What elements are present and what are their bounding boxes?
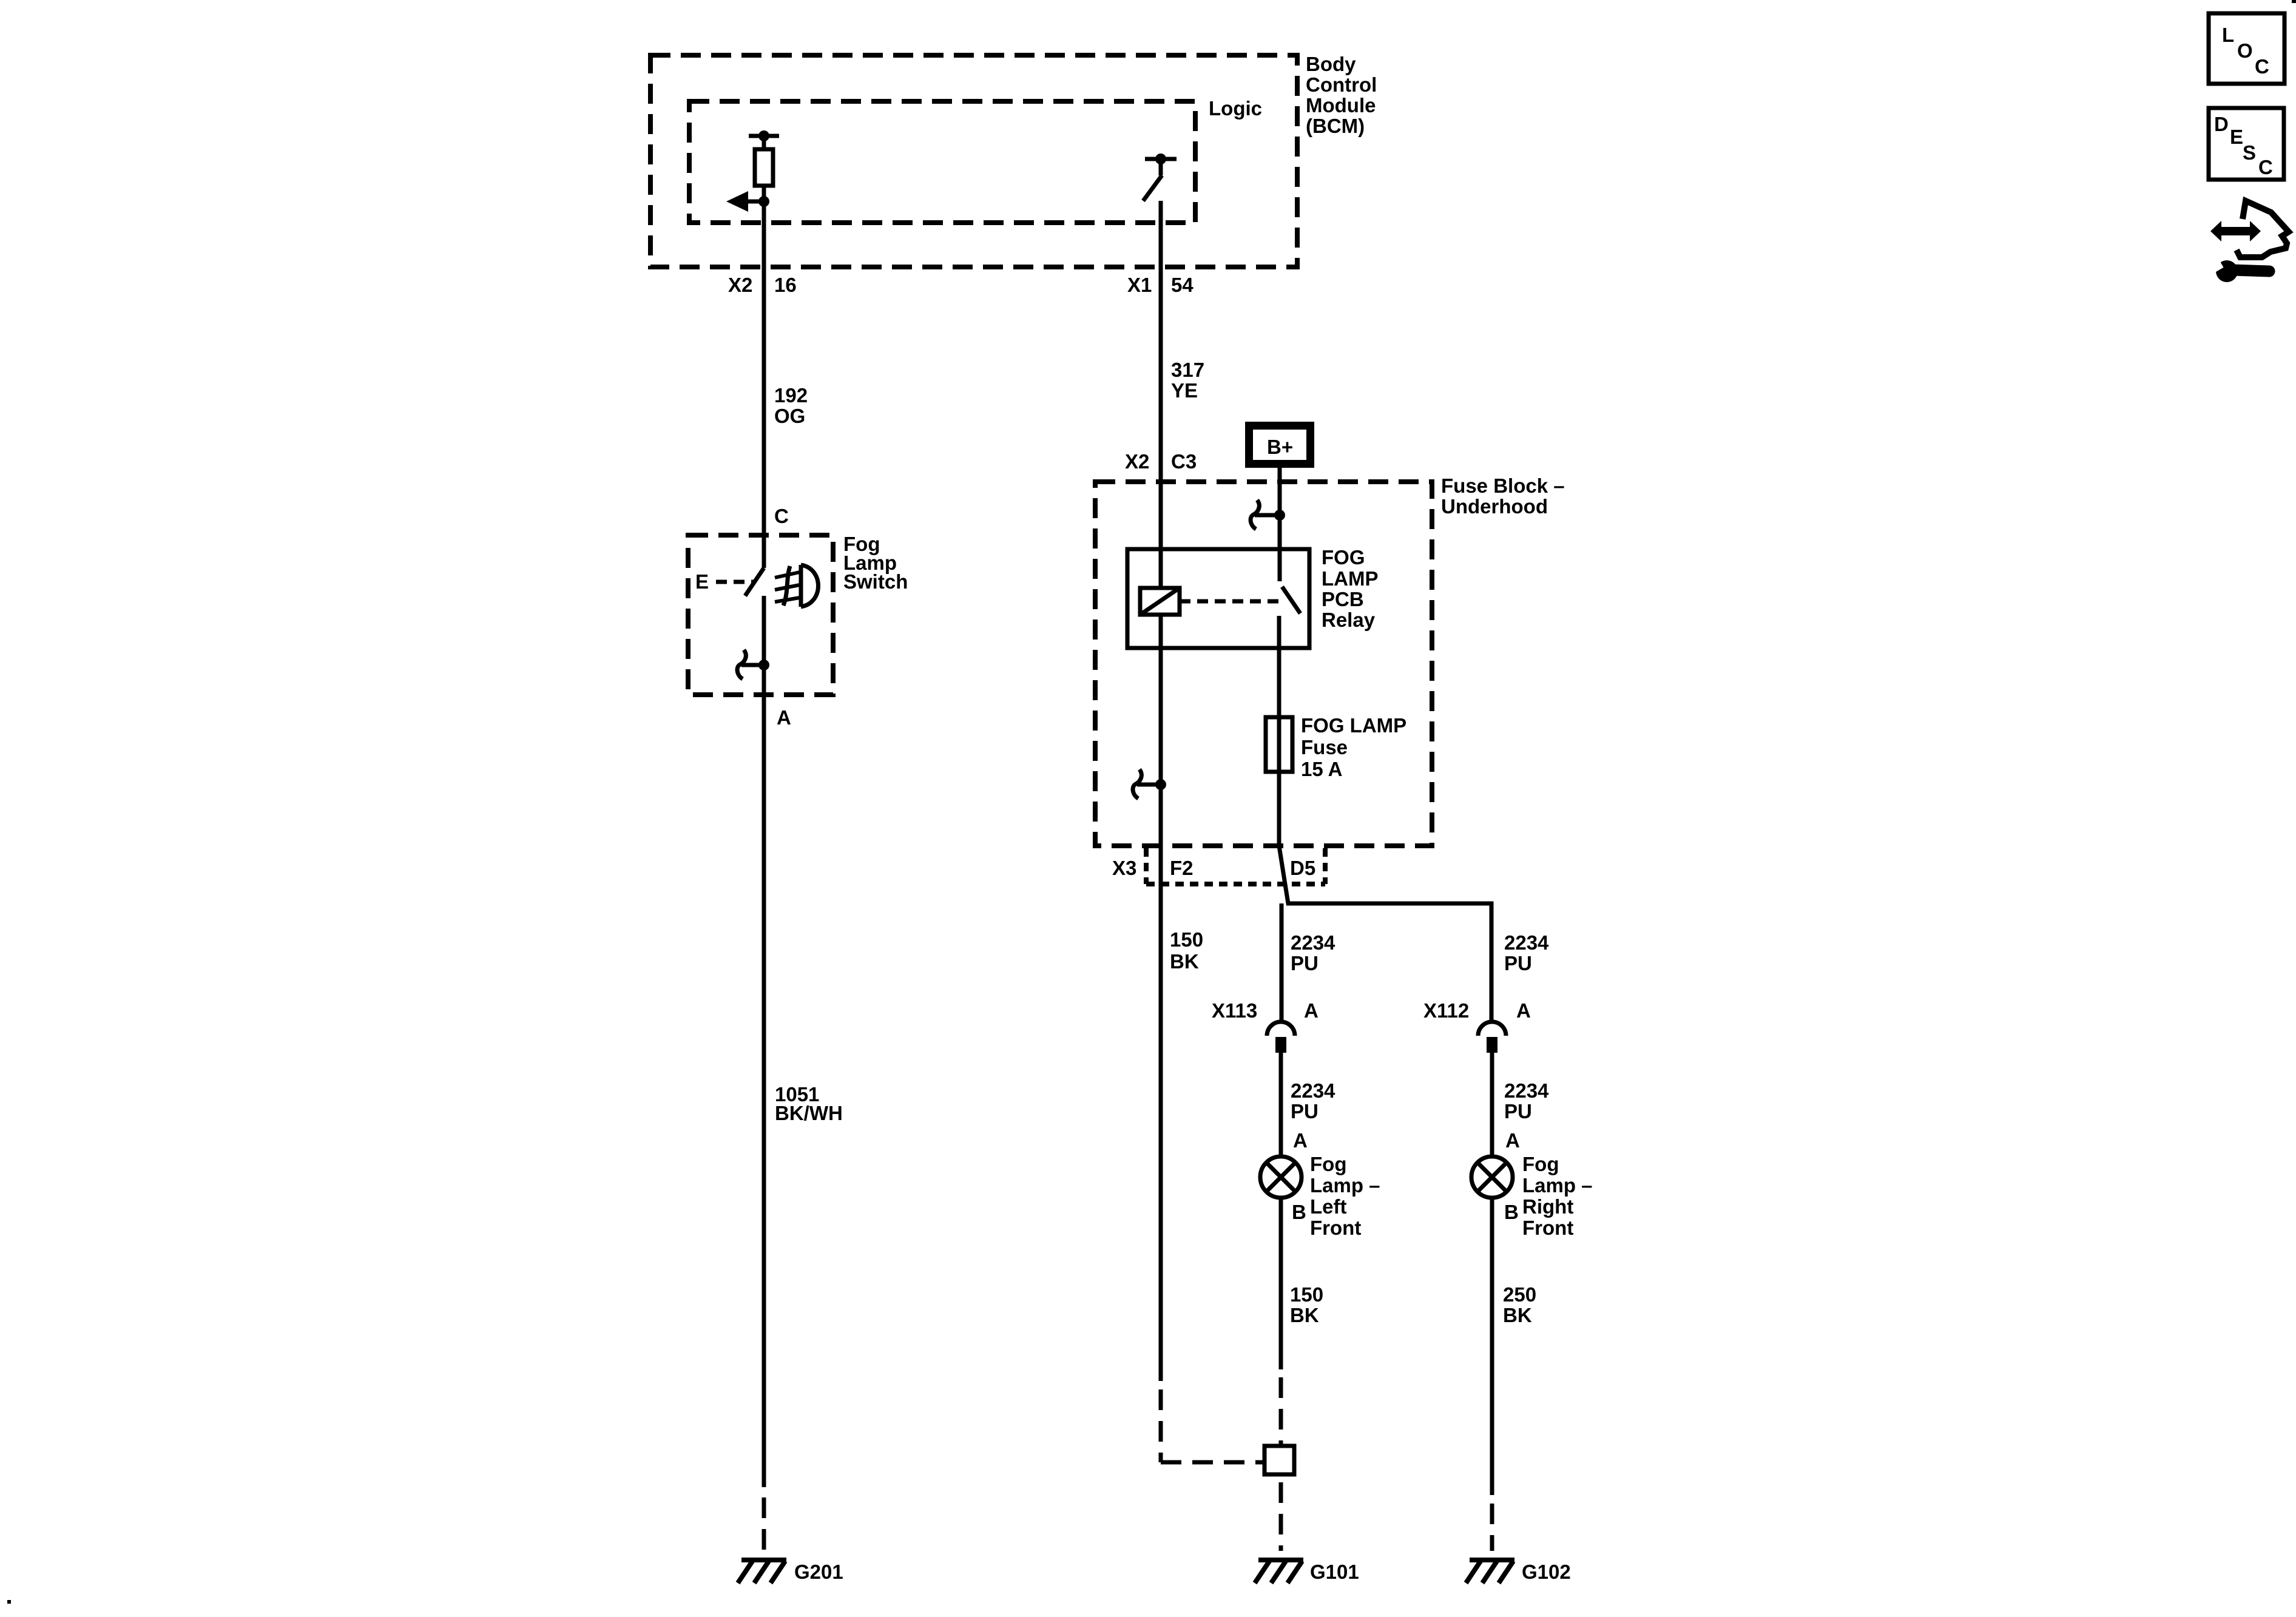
svg-text:A: A xyxy=(1505,1129,1520,1152)
svg-text:PCB: PCB xyxy=(1322,588,1364,610)
svg-text:54: 54 xyxy=(1171,274,1194,296)
svg-text:2234: 2234 xyxy=(1291,931,1335,954)
svg-text:Relay: Relay xyxy=(1322,609,1376,631)
svg-text:Lamp –: Lamp – xyxy=(1522,1174,1593,1197)
svg-text:D: D xyxy=(2214,113,2229,135)
svg-text:PU: PU xyxy=(1291,952,1319,974)
svg-text:Body: Body xyxy=(1306,53,1356,75)
svg-text:BK/WH: BK/WH xyxy=(775,1102,843,1124)
svg-text:OG: OG xyxy=(774,405,805,427)
svg-text:X1: X1 xyxy=(1127,274,1152,296)
svg-text:C: C xyxy=(2258,156,2273,178)
svg-text:G201: G201 xyxy=(794,1561,843,1583)
svg-text:BK: BK xyxy=(1170,950,1199,973)
svg-text:Module: Module xyxy=(1306,94,1376,116)
svg-text:2234: 2234 xyxy=(1504,931,1549,954)
svg-text:(BCM): (BCM) xyxy=(1306,115,1365,137)
svg-text:G102: G102 xyxy=(1522,1561,1571,1583)
svg-text:BK: BK xyxy=(1290,1304,1319,1326)
svg-text:LAMP: LAMP xyxy=(1322,567,1379,590)
svg-text:Front: Front xyxy=(1522,1217,1573,1239)
svg-text:C: C xyxy=(774,505,789,527)
svg-text:X3: X3 xyxy=(1112,857,1136,879)
svg-text:A: A xyxy=(1293,1129,1308,1152)
svg-text:Fuse: Fuse xyxy=(1301,736,1348,758)
svg-text:A: A xyxy=(777,706,791,729)
svg-text:X112: X112 xyxy=(1423,999,1469,1022)
svg-text:15 A: 15 A xyxy=(1301,758,1342,780)
svg-text:F2: F2 xyxy=(1170,857,1194,879)
svg-text:X2: X2 xyxy=(1125,450,1149,473)
svg-text:Fuse Block –: Fuse Block – xyxy=(1441,474,1565,497)
svg-text:A: A xyxy=(1516,999,1531,1022)
svg-text:150: 150 xyxy=(1290,1283,1323,1306)
svg-text:X113: X113 xyxy=(1212,999,1257,1022)
svg-text:B: B xyxy=(1504,1201,1519,1223)
svg-text:PU: PU xyxy=(1291,1100,1319,1122)
svg-text:E: E xyxy=(2230,126,2243,148)
svg-text:BK: BK xyxy=(1503,1304,1532,1326)
svg-text:250: 250 xyxy=(1503,1283,1536,1306)
svg-text:16: 16 xyxy=(774,274,797,296)
svg-text:Logic: Logic xyxy=(1209,97,1262,120)
svg-text:PU: PU xyxy=(1504,1100,1532,1122)
svg-text:Underhood: Underhood xyxy=(1441,495,1548,518)
svg-text:B+: B+ xyxy=(1267,436,1293,458)
svg-text:Left: Left xyxy=(1310,1195,1347,1218)
svg-text:B: B xyxy=(1292,1201,1306,1223)
svg-text:L: L xyxy=(2222,24,2234,46)
svg-text:FOG LAMP: FOG LAMP xyxy=(1301,714,1406,737)
svg-text:Lamp –: Lamp – xyxy=(1310,1174,1380,1197)
svg-text:150: 150 xyxy=(1170,928,1203,951)
svg-text:2234: 2234 xyxy=(1504,1079,1549,1102)
svg-text:D5: D5 xyxy=(1290,857,1315,879)
svg-text:FOG: FOG xyxy=(1322,546,1365,569)
svg-text:PU: PU xyxy=(1504,952,1532,974)
svg-text:Fog: Fog xyxy=(1310,1153,1346,1175)
svg-text:YE: YE xyxy=(1171,379,1198,402)
svg-text:S: S xyxy=(2243,141,2256,164)
svg-text:A: A xyxy=(1304,999,1319,1022)
svg-text:Right: Right xyxy=(1522,1195,1573,1218)
svg-text:Front: Front xyxy=(1310,1217,1361,1239)
svg-text:192: 192 xyxy=(774,384,808,407)
svg-text:C3: C3 xyxy=(1171,450,1197,473)
svg-text:317: 317 xyxy=(1171,359,1204,381)
svg-text:O: O xyxy=(2237,39,2253,62)
svg-text:E: E xyxy=(695,570,709,593)
svg-text:Control: Control xyxy=(1306,73,1377,96)
svg-text:X2: X2 xyxy=(728,274,752,296)
svg-text:G101: G101 xyxy=(1310,1561,1359,1583)
svg-text:Fog: Fog xyxy=(1522,1153,1559,1175)
svg-text:C: C xyxy=(2255,55,2269,78)
svg-text:2234: 2234 xyxy=(1291,1079,1335,1102)
svg-text:Switch: Switch xyxy=(843,570,908,593)
